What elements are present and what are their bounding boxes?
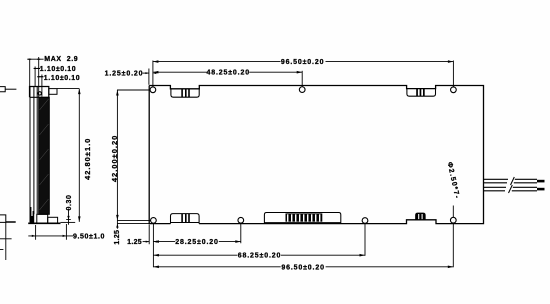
bottom edge extension left <box>117 223 149 225</box>
wire W1 upper <box>484 179 538 183</box>
svg-text:1.25: 1.25 <box>114 230 121 245</box>
dim 42.00 line <box>116 90 118 229</box>
board outline (top view) <box>149 86 483 224</box>
connector J2 top-right <box>407 89 436 97</box>
svg-text:1.25: 1.25 <box>127 239 142 246</box>
cutoff bottom base line <box>6 221 16 223</box>
dim MAX 2.9 ext+ticks <box>27 57 43 97</box>
dim bottom extension lines <box>149 223 453 267</box>
dim 0.30 line <box>66 209 71 225</box>
dim 28.25 line <box>153 241 240 243</box>
arrow 1.25 vertical (outside) <box>116 224 118 228</box>
dim 96.50 top line <box>153 61 454 63</box>
arrowheads <box>116 60 453 268</box>
connector J3 pin divider bars <box>181 214 190 223</box>
cutoff bottom tick b <box>0 249 3 251</box>
svg-text:48.25±0.20: 48.25±0.20 <box>206 70 249 77</box>
cutoff top wire line <box>5 88 16 90</box>
side connector bottom latch <box>48 217 58 223</box>
svg-text:42.80±1.0: 42.80±1.0 <box>83 138 92 180</box>
cutoff bottom tick a <box>0 238 12 240</box>
wire W1 end cap <box>537 180 545 183</box>
pcb bar hatch texture <box>40 99 49 210</box>
svg-text:Φ2.50*7-: Φ2.50*7- <box>446 161 461 200</box>
side connector top latch <box>49 89 57 95</box>
dim 1.25 bottom leader <box>143 241 150 243</box>
dim 68.25 line <box>153 254 365 256</box>
svg-text:28.25±0.20: 28.25±0.20 <box>175 239 218 246</box>
arrow 42.00 top/bottom <box>116 90 119 96</box>
dimension texts <box>105 59 461 271</box>
dim 48.25 extension line <box>301 71 303 87</box>
wire W2 break slash <box>509 185 513 193</box>
arrow 9.50 pair <box>32 235 36 237</box>
svg-text:42.00±0.20: 42.00±0.20 <box>110 135 119 182</box>
dim 1.25 top leader <box>143 72 149 74</box>
hole H7 bottom-right <box>450 217 456 223</box>
connector J1 pin divider bars <box>181 89 190 97</box>
svg-text:96.50±0.20: 96.50±0.20 <box>281 59 324 66</box>
wire W2 end cap <box>537 188 545 191</box>
arrow 96.50 top left/right <box>153 60 159 63</box>
side connector top body <box>30 87 49 98</box>
dim 1.10 b ext+ticks <box>39 75 44 97</box>
svg-text:9.50±1.0: 9.50±1.0 <box>73 234 105 241</box>
cutoff bottom vertical <box>5 222 7 260</box>
connector J4 bottom-middle wide <box>264 213 340 224</box>
hole H6 bottom-middle <box>362 218 368 224</box>
arrow 0.30 <box>67 216 69 220</box>
arrow 28.25 left/right <box>153 240 159 243</box>
hole H1 top-left <box>150 87 156 93</box>
dim 9.50 ext lines <box>36 224 67 240</box>
connector J1 top-left <box>171 89 199 97</box>
svg-text:0.30: 0.30 <box>66 194 73 210</box>
arrow 1.25 top (outside pair) <box>145 72 149 74</box>
hole H2 top-middle <box>299 87 305 93</box>
connector J3 bottom-left <box>171 214 200 224</box>
svg-text:1.10±0.10: 1.10±0.10 <box>40 66 77 73</box>
dim 96.50 top extension lines <box>149 61 454 87</box>
svg-text:68.25±0.20: 68.25±0.20 <box>238 253 281 260</box>
connector J4 pin band <box>286 213 323 221</box>
leader line hole callout <box>452 206 454 218</box>
dim 48.25 line <box>153 71 302 73</box>
dim 42.80 line <box>78 89 80 222</box>
connector J5 bottom-right small <box>416 213 425 220</box>
svg-text:1.10±0.10: 1.10±0.10 <box>44 75 81 82</box>
arrow 48.25 left/right <box>153 71 159 74</box>
dim 9.50 line <box>28 235 73 237</box>
arrow 68.25 left/right <box>153 254 159 257</box>
pcb cross-section bar <box>39 97 50 214</box>
side connector top circle <box>38 92 41 95</box>
side base line <box>28 222 60 224</box>
connector J2 pin divider bars <box>416 89 425 97</box>
cutoff bottom box <box>0 215 6 223</box>
hole H5 bottom-mid-left <box>238 217 244 223</box>
hole H3 top-right <box>451 87 457 93</box>
svg-text:1.25±0.20: 1.25±0.20 <box>105 71 144 78</box>
dim 42.00 extension lines <box>117 90 151 220</box>
svg-text:MAX 2.9: MAX 2.9 <box>44 56 78 63</box>
wire W2 lower <box>484 187 538 191</box>
side connector bottom body <box>37 214 48 223</box>
arrow 42.80 top/bottom <box>78 89 81 95</box>
hole H4 bottom-left <box>151 218 157 224</box>
dim 1.10 a ext+ticks <box>35 67 39 87</box>
dims of side view <box>27 57 79 240</box>
arrow 96.50 bottom left/right <box>153 266 159 269</box>
film lines left of bar <box>30 87 37 223</box>
side base extension <box>61 221 76 223</box>
tick arrows MAX/1.10 <box>28 59 31 60</box>
dim 42.80 ext top <box>57 88 79 90</box>
arrow 1.25 bottom (outside pair) <box>146 241 150 243</box>
svg-text:96.50±0.20: 96.50±0.20 <box>281 264 324 271</box>
wire W1 break slash <box>511 177 515 185</box>
dim 96.50 bottom line <box>153 266 453 268</box>
film end marks <box>31 207 34 223</box>
cutoff top wire box <box>0 87 5 92</box>
